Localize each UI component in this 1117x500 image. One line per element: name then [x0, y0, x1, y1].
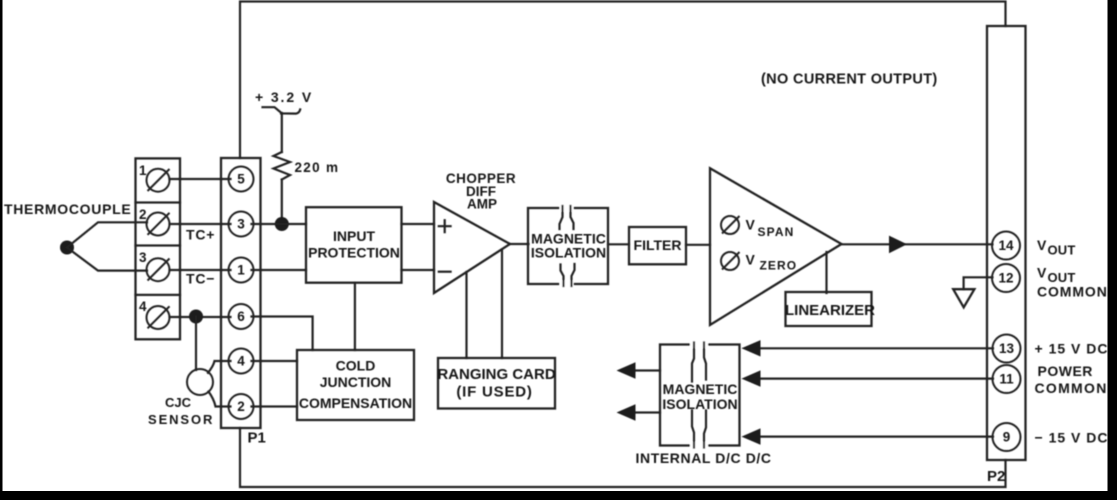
svg-text:14: 14: [998, 238, 1014, 253]
svg-text:2: 2: [139, 207, 147, 222]
svg-text:(IF USED): (IF USED): [456, 384, 532, 401]
svg-text:V: V: [746, 217, 756, 233]
svg-text:5: 5: [237, 172, 245, 187]
svg-text:TC+: TC+: [186, 227, 215, 243]
svg-text:SPAN: SPAN: [758, 225, 795, 239]
svg-text:3: 3: [237, 217, 245, 232]
svg-text:TC−: TC−: [186, 271, 215, 287]
svg-text:AMP: AMP: [467, 197, 497, 212]
svg-text:ISOLATION: ISOLATION: [531, 245, 606, 261]
svg-text:2: 2: [237, 399, 245, 414]
svg-text:1: 1: [237, 263, 245, 278]
svg-text:PROTECTION: PROTECTION: [308, 245, 400, 261]
svg-text:ISOLATION: ISOLATION: [662, 396, 737, 412]
svg-text:− 15 V DC: − 15 V DC: [1035, 430, 1109, 446]
svg-text:4: 4: [139, 299, 147, 314]
svg-text:P1: P1: [248, 430, 266, 447]
svg-text:POWER: POWER: [1038, 363, 1093, 379]
svg-text:CJC: CJC: [165, 395, 192, 410]
svg-text:FILTER: FILTER: [634, 237, 682, 253]
svg-text:6: 6: [237, 309, 245, 324]
svg-text:MAGNETIC: MAGNETIC: [663, 381, 738, 397]
svg-text:+ 15 V DC: + 15 V DC: [1035, 341, 1109, 357]
svg-text:9: 9: [1003, 430, 1011, 445]
svg-text:THERMOCOUPLE: THERMOCOUPLE: [4, 201, 131, 217]
svg-text:LINEARIZER: LINEARIZER: [785, 302, 875, 319]
svg-text:ZERO: ZERO: [760, 259, 798, 273]
svg-text:JUNCTION: JUNCTION: [320, 374, 392, 390]
svg-text:3: 3: [139, 250, 147, 265]
svg-text:1: 1: [139, 163, 147, 178]
svg-text:(NO CURRENT OUTPUT): (NO CURRENT OUTPUT): [761, 72, 938, 88]
svg-text:4: 4: [237, 354, 245, 369]
svg-text:+ 3.2 V: + 3.2 V: [255, 89, 313, 105]
svg-text:11: 11: [999, 372, 1014, 387]
svg-text:COMPENSATION: COMPENSATION: [299, 395, 412, 411]
svg-text:RANGING CARD: RANGING CARD: [437, 366, 555, 383]
svg-text:V: V: [1037, 265, 1047, 281]
svg-text:12: 12: [998, 271, 1013, 286]
svg-text:COLD: COLD: [336, 358, 376, 374]
svg-text:COMMON: COMMON: [1037, 284, 1108, 300]
svg-text:SENSOR: SENSOR: [148, 412, 214, 427]
svg-text:13: 13: [999, 341, 1015, 356]
svg-text:P2: P2: [987, 468, 1005, 485]
svg-text:INPUT: INPUT: [333, 228, 375, 244]
svg-text:COMMON: COMMON: [1035, 380, 1108, 396]
svg-text:220 m: 220 m: [295, 160, 340, 175]
svg-text:INTERNAL D/C D/C: INTERNAL D/C D/C: [636, 450, 772, 466]
svg-text:OUT: OUT: [1048, 243, 1076, 258]
svg-text:V: V: [746, 252, 756, 268]
svg-text:V: V: [1037, 237, 1047, 253]
